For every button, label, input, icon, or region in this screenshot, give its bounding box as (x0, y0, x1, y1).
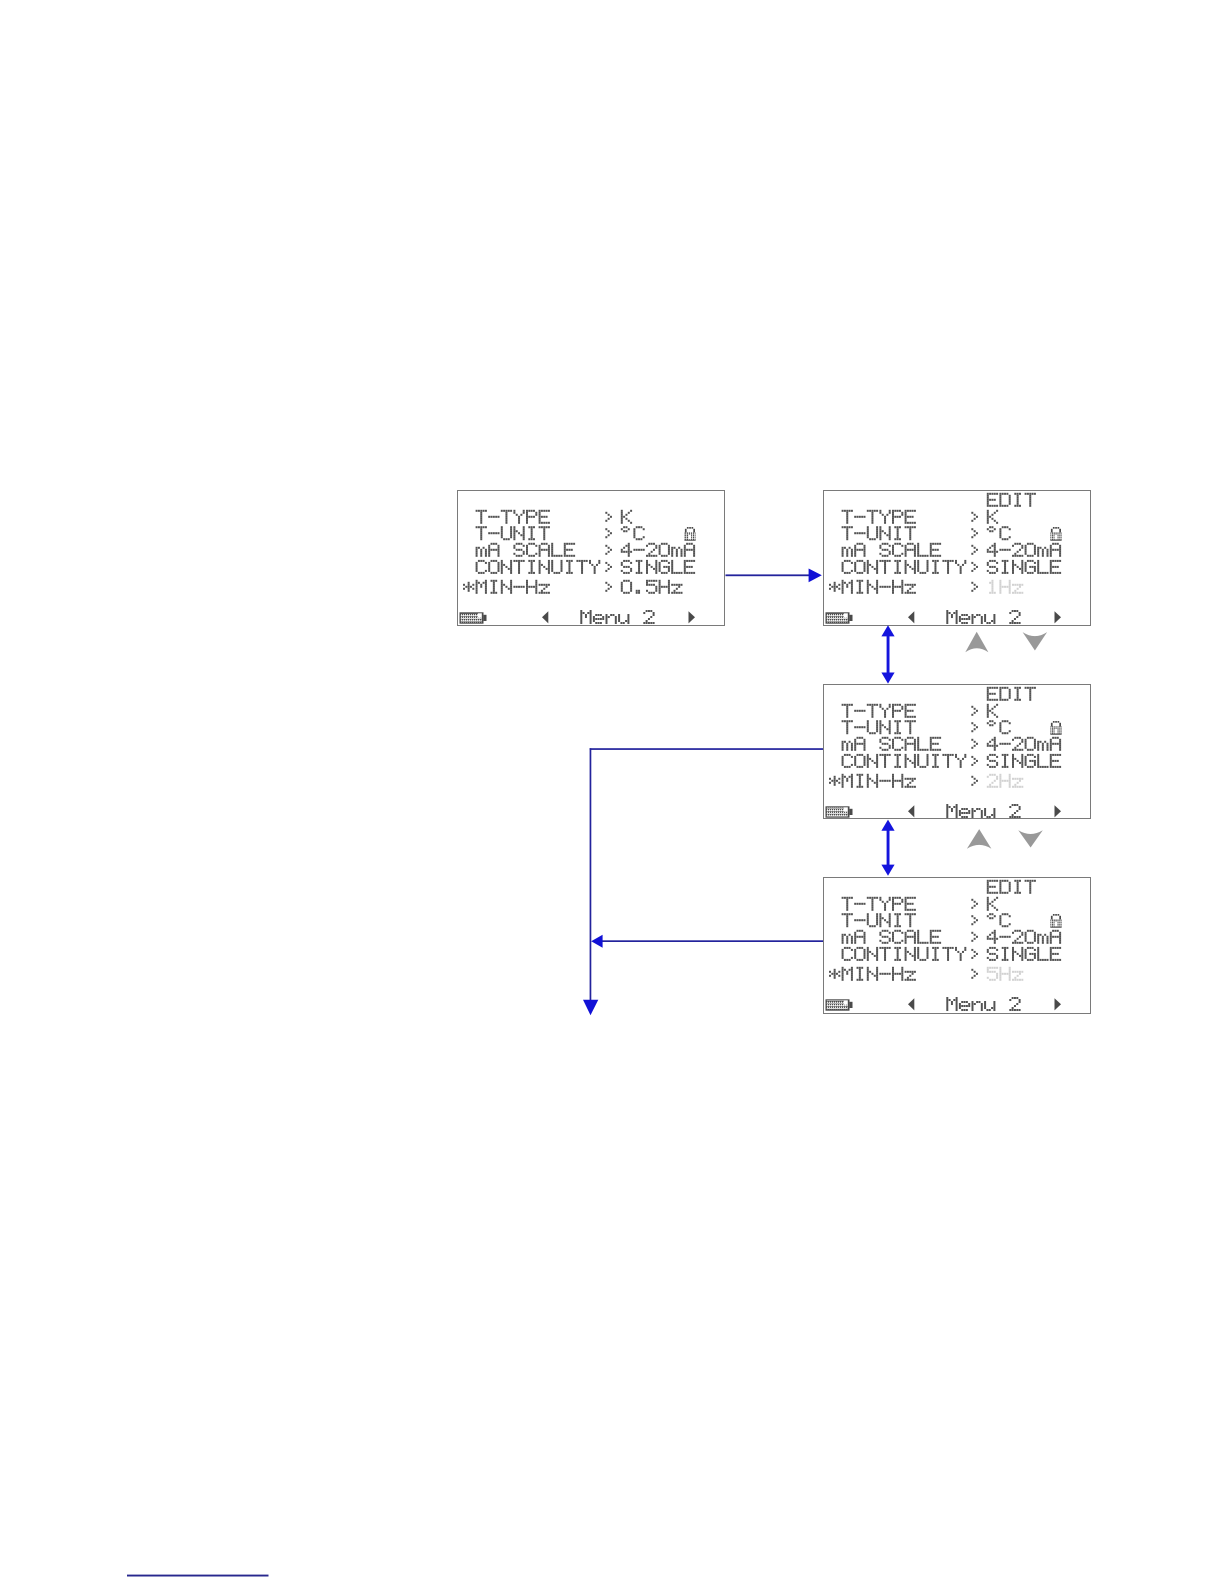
up button A (965, 632, 988, 653)
LCD screen 4 frame (823, 877, 1091, 1014)
menu right arrow screen 2 (1055, 611, 1062, 623)
menu left arrow screen 3 (908, 805, 914, 817)
connector left arrowhead (591, 935, 602, 948)
LCD screen 4 text (829, 880, 1061, 1011)
menu left arrow screen 1 (542, 611, 548, 623)
battery icon screen 1 (460, 613, 486, 623)
lock icon screen 2 (1050, 527, 1061, 541)
connector down arrowhead (583, 1000, 598, 1016)
menu left arrow screen 4 (908, 998, 914, 1010)
LCD screen 1 text (463, 510, 695, 624)
up button B (967, 829, 992, 849)
down button A (1023, 632, 1048, 650)
connector line from screen4 left (602, 940, 823, 942)
lock icon screen 3 (1050, 721, 1061, 735)
menu right arrow screen 3 (1055, 805, 1062, 817)
double arrow screens 2-3 (881, 625, 894, 683)
footnote rule (127, 1575, 269, 1577)
lock icon screen 1 (684, 527, 695, 541)
LCD screen 3 text (829, 687, 1061, 818)
flow arrow screen1 to screen2 (726, 574, 810, 576)
down button B (1018, 830, 1043, 847)
menu right arrow screen 1 (689, 611, 696, 623)
battery icon screen 4 (826, 1000, 852, 1010)
lock icon screen 4 (1050, 914, 1061, 928)
connector line from screen3 left (590, 748, 823, 750)
menu right arrow screen 4 (1055, 998, 1062, 1010)
connector vertical line (590, 748, 592, 1001)
double arrow screens 3-4 (881, 820, 894, 876)
battery icon screen 2 (826, 613, 852, 623)
LCD screen 2 text (829, 493, 1061, 624)
menu left arrow screen 2 (908, 611, 914, 623)
LCD screen 3 frame (823, 684, 1091, 819)
LCD screen 2 frame (823, 490, 1091, 626)
LCD screen 1 frame (457, 490, 725, 626)
battery icon screen 3 (826, 807, 852, 817)
